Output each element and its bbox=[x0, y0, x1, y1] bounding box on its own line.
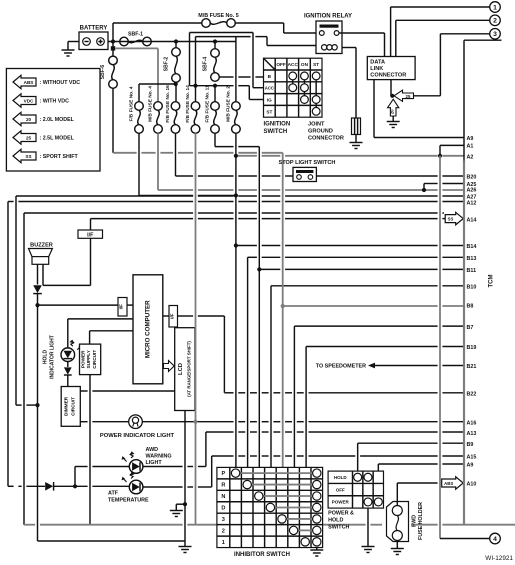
svg-text:INHIBITOR SWITCH: INHIBITOR SWITCH bbox=[234, 552, 290, 558]
wire relay coil to joint ground connector bbox=[342, 48, 356, 119]
fuse SBF-6 bbox=[100, 56, 117, 88]
wire A-net down to connector 4 bbox=[440, 156, 490, 539]
svg-text:ACC: ACC bbox=[288, 62, 299, 67]
svg-text:B13: B13 bbox=[467, 256, 477, 262]
fuse SBF-2 bbox=[164, 42, 181, 83]
svg-text:POWER INDICATOR LIGHT: POWER INDICATOR LIGHT bbox=[100, 433, 175, 439]
node dimmer feed bbox=[35, 403, 39, 407]
node No.4-No.2 junction bbox=[234, 193, 238, 197]
svg-text:: SPORT SHIFT: : SPORT SHIFT bbox=[40, 154, 79, 160]
LCD box bbox=[175, 328, 195, 411]
wire LCD ground rail bbox=[184, 411, 186, 547]
svg-text:ATF: ATF bbox=[108, 491, 119, 497]
wire 25-tag to connector 3 bbox=[414, 34, 490, 96]
svg-text:INDICATOR LIGHT: INDICATOR LIGHT bbox=[50, 335, 56, 379]
wire DLC to connector 2 bbox=[396, 20, 490, 56]
wire rail V1 down bbox=[235, 133, 237, 469]
svg-text:A9: A9 bbox=[467, 136, 474, 142]
wire DLC to diagnosis node bbox=[391, 80, 392, 96]
wire SBF-4 to B terminal bbox=[219, 76, 263, 78]
wire SBF-6 to rail V5 bbox=[113, 152, 283, 154]
diode D3 bbox=[45, 482, 53, 491]
svg-text:IGNITION: IGNITION bbox=[264, 122, 291, 128]
wire main left rail bbox=[37, 305, 39, 541]
svg-text:MICRO COMPUTER: MICRO COMPUTER bbox=[145, 300, 152, 358]
wire No.16 to stop light switch bbox=[176, 133, 294, 176]
svg-text:OFF: OFF bbox=[336, 487, 345, 492]
node LED branch bbox=[73, 484, 77, 488]
svg-text:A16: A16 bbox=[467, 420, 477, 426]
LED ATF temperature bbox=[108, 472, 149, 504]
wire dimmer to LCD bbox=[80, 390, 174, 392]
svg-text:LIGHT: LIGHT bbox=[146, 460, 163, 466]
svg-text:DIMMER: DIMMER bbox=[64, 396, 69, 416]
tag 25 (2.5L model) bbox=[394, 90, 414, 101]
svg-text:IG: IG bbox=[267, 98, 272, 103]
svg-text:A1: A1 bbox=[467, 144, 474, 150]
switch SW3 power and hold switch bbox=[328, 471, 383, 530]
node SBF-2/No.16 junction bbox=[174, 82, 178, 86]
svg-text:STOP LIGHT SWITCH: STOP LIGHT SWITCH bbox=[279, 160, 336, 166]
svg-text:A13: A13 bbox=[467, 431, 477, 437]
LED AWD warning light bbox=[122, 447, 172, 473]
svg-text:1: 1 bbox=[222, 540, 225, 546]
power supply circuit box bbox=[80, 344, 101, 375]
wire B19 bbox=[306, 347, 464, 469]
svg-text:ST: ST bbox=[313, 62, 319, 67]
svg-text:B7: B7 bbox=[467, 325, 474, 331]
svg-text:3: 3 bbox=[493, 31, 497, 38]
fuse M/B FUSE No. 4 bbox=[148, 86, 163, 134]
svg-text:FUSE HOLDER: FUSE HOLDER bbox=[418, 502, 424, 540]
lamp power indicator light bbox=[100, 415, 175, 439]
svg-text:B11: B11 bbox=[467, 268, 477, 274]
svg-text:4: 4 bbox=[493, 536, 497, 543]
svg-text:: 2.5L MODEL: : 2.5L MODEL bbox=[40, 136, 75, 142]
svg-text:OFF: OFF bbox=[276, 62, 286, 67]
svg-text:CIRCUIT: CIRCUIT bbox=[92, 350, 97, 369]
node I/F2 tap bbox=[35, 303, 39, 307]
wire DLC to connector 1 bbox=[391, 7, 490, 57]
wire fuse No.5 to ignition relay bbox=[235, 23, 319, 33]
svg-text:SWITCH: SWITCH bbox=[328, 525, 349, 531]
wire unit box left bbox=[24, 213, 444, 525]
wire B7 bbox=[294, 326, 464, 469]
wire I/F box riser bbox=[90, 219, 92, 230]
wire No.11 to rail V3 bbox=[215, 133, 259, 146]
svg-text:A2: A2 bbox=[467, 155, 474, 161]
svg-text:F/B FUSE No. 11: F/B FUSE No. 11 bbox=[205, 85, 211, 123]
wire A12-rail to node bbox=[16, 404, 38, 406]
LED hold indicator bbox=[61, 340, 82, 362]
wire DLC bottom to A9 bbox=[374, 80, 464, 138]
svg-text:BUZZER: BUZZER bbox=[30, 243, 53, 249]
svg-text:: WITHOUT VDC: : WITHOUT VDC bbox=[40, 80, 81, 86]
fuse SBF-4 bbox=[203, 42, 220, 82]
wire B10 bbox=[271, 286, 464, 469]
wire F/B No.4 down bbox=[139, 133, 236, 195]
svg-text:SS: SS bbox=[448, 216, 454, 221]
wire AWD LED to A13 bbox=[143, 432, 464, 467]
fuse F/B FUSE No. 4 bbox=[129, 86, 144, 133]
svg-text:ABS: ABS bbox=[444, 481, 453, 486]
svg-text:CONNECTOR: CONNECTOR bbox=[370, 73, 406, 79]
svg-text:B10: B10 bbox=[467, 285, 477, 291]
svg-text:P: P bbox=[221, 471, 225, 477]
wire B11 bbox=[259, 268, 464, 270]
wire M/B No.2 to A2 bbox=[236, 155, 464, 157]
switch SW2 inhibitor switch bbox=[217, 467, 323, 558]
node illumination tap bbox=[193, 420, 197, 424]
wire hold LED feed bbox=[68, 319, 133, 348]
svg-text:CIRCUIT: CIRCUIT bbox=[71, 397, 76, 416]
fuse F/B FUSE No. 14 bbox=[185, 85, 200, 133]
svg-text:R: R bbox=[221, 483, 225, 489]
arrow MC to LCD bbox=[164, 361, 175, 372]
wire IG to relay coil bbox=[196, 37, 317, 86]
wire B22 from LCD bbox=[178, 316, 465, 393]
I/F box 1 bbox=[78, 230, 103, 239]
node SBF-2 tap bbox=[174, 39, 178, 43]
wire I/F2 to micro computer bbox=[127, 304, 133, 306]
svg-text:D: D bbox=[221, 505, 225, 511]
tag SS (sport shift A14) bbox=[445, 212, 463, 225]
wire IG feed line bbox=[190, 86, 264, 100]
wire No.14 stub bbox=[195, 86, 197, 102]
svg-text:A15: A15 bbox=[467, 455, 477, 461]
wire rail V5 down bbox=[282, 153, 284, 469]
svg-text:SBF-1: SBF-1 bbox=[128, 32, 143, 38]
svg-text:WI-12921: WI-12921 bbox=[485, 555, 513, 562]
node A25 branch bbox=[422, 184, 464, 193]
svg-text:LCD: LCD bbox=[178, 363, 184, 375]
svg-text:B22: B22 bbox=[467, 392, 477, 398]
wire main bus from battery bbox=[108, 41, 236, 43]
svg-text:1: 1 bbox=[493, 4, 497, 11]
svg-text:F/B FUSE No. 16: F/B FUSE No. 16 bbox=[165, 85, 171, 123]
dimmer circuit box bbox=[61, 387, 80, 427]
svg-text:(AT RANGE/SPORT SHIFT): (AT RANGE/SPORT SHIFT) bbox=[186, 341, 191, 397]
buzzer BZ1 bbox=[29, 243, 53, 265]
wire B14 bbox=[236, 245, 464, 247]
svg-text:ST: ST bbox=[266, 109, 272, 114]
label TCM bbox=[489, 275, 495, 288]
svg-text:WARNING: WARNING bbox=[146, 454, 172, 460]
svg-text:ON: ON bbox=[301, 62, 309, 67]
wire to M/B fuse No.5 bbox=[113, 23, 202, 42]
wire No.11 stub bbox=[214, 86, 216, 102]
wire left rail to ground bbox=[38, 540, 186, 542]
switch stop light switch bbox=[279, 160, 336, 182]
ground (meter 1) bbox=[170, 504, 185, 516]
wire ACC feed bbox=[190, 33, 264, 88]
svg-text:I/F: I/F bbox=[119, 304, 124, 310]
svg-text:B21: B21 bbox=[467, 364, 477, 370]
diode D2 bbox=[64, 367, 72, 375]
wire LED to diode bbox=[67, 362, 69, 368]
svg-text:TEMPERATURE: TEMPERATURE bbox=[108, 498, 149, 504]
svg-text:A9: A9 bbox=[467, 463, 474, 469]
FWD fuse holder F1 bbox=[387, 502, 425, 542]
wire B21 to speedometer bbox=[316, 363, 464, 370]
fuse M/B FUSE No. 5 bbox=[198, 13, 238, 27]
svg-text:A14: A14 bbox=[467, 218, 477, 224]
wire ATF to A15 bbox=[143, 456, 464, 487]
wire buzzer to I/F bbox=[43, 238, 91, 285]
svg-text:B14: B14 bbox=[467, 244, 477, 250]
I/F box 3 bbox=[163, 306, 178, 328]
wire FWD fuse to ABS tag bbox=[397, 483, 442, 506]
battery B1 bbox=[79, 26, 108, 50]
node B8 junction bbox=[281, 304, 285, 308]
wire diode to dimmer bbox=[67, 375, 69, 386]
svg-text:HOLD: HOLD bbox=[43, 350, 49, 365]
svg-text:A26: A26 bbox=[467, 188, 477, 194]
svg-text:SBF-4: SBF-4 bbox=[203, 57, 209, 72]
wire battery to M/B fuse No.4 bbox=[115, 48, 158, 101]
svg-text:M/B FUSE No. 2: M/B FUSE No. 2 bbox=[225, 86, 231, 122]
fuse F/B FUSE No. 11 bbox=[205, 85, 220, 133]
svg-text:B20: B20 bbox=[467, 175, 477, 181]
label hold indicator light bbox=[43, 335, 56, 379]
wire B9 to P&H switch bbox=[358, 443, 464, 471]
fuse SBF-1 bbox=[120, 32, 152, 46]
wire SBF-6 down bbox=[112, 88, 114, 153]
wire lamp to A16 bbox=[142, 421, 464, 423]
svg-text:LINK: LINK bbox=[370, 66, 383, 72]
wire diode feed LEDs bbox=[8, 485, 45, 487]
labels TCM pins bbox=[467, 136, 477, 487]
svg-text:DATA: DATA bbox=[370, 60, 385, 66]
svg-text:IGNITION RELAY: IGNITION RELAY bbox=[304, 14, 352, 20]
wire stop light switch to B20 bbox=[316, 175, 464, 177]
tag ABS (A10) bbox=[442, 477, 464, 490]
svg-text:B9: B9 bbox=[467, 442, 474, 448]
svg-text:A12: A12 bbox=[467, 201, 477, 207]
wire B8 bbox=[283, 305, 464, 307]
wire illumination rail bbox=[195, 133, 197, 524]
connector 1 bbox=[490, 2, 501, 13]
svg-text:AWD: AWD bbox=[146, 447, 159, 453]
wire buzzer left leg bbox=[37, 264, 39, 284]
micro computer U2 bbox=[133, 275, 163, 384]
node ground tap bbox=[183, 502, 187, 506]
node SBF-4 tap bbox=[213, 39, 217, 43]
svg-text:25: 25 bbox=[406, 94, 411, 99]
svg-text:2: 2 bbox=[493, 18, 497, 25]
svg-text:: 2.0L MODEL: : 2.0L MODEL bbox=[40, 117, 75, 123]
node battery junction bbox=[111, 39, 115, 43]
wire bottom gray bus bbox=[24, 524, 515, 526]
data link connector J2 bbox=[367, 57, 415, 80]
svg-text:ACC: ACC bbox=[265, 86, 274, 91]
svg-text:: WITH VDC: : WITH VDC bbox=[40, 99, 70, 105]
svg-text:HOLD: HOLD bbox=[334, 475, 347, 480]
svg-text:BATTERY: BATTERY bbox=[80, 26, 108, 32]
label WI-12921 bbox=[485, 555, 513, 562]
node B11 junction bbox=[257, 267, 261, 271]
joint ground connector J1 bbox=[308, 118, 361, 142]
connector 2 bbox=[490, 15, 501, 26]
wire dimmer to lamp bbox=[80, 421, 128, 423]
wire A5 to P&H switch bbox=[378, 464, 464, 471]
svg-text:FWD: FWD bbox=[412, 515, 418, 527]
ground (battery) bbox=[62, 42, 75, 57]
wire I/F to A14 bbox=[91, 218, 447, 220]
wire B13 bbox=[248, 257, 464, 469]
svg-text:HOLD: HOLD bbox=[328, 518, 343, 524]
relay coil / ignition relay U1 bbox=[304, 14, 352, 54]
svg-text:GROUND: GROUND bbox=[308, 129, 333, 135]
svg-text:POWER &: POWER & bbox=[328, 511, 354, 517]
svg-text:I/F: I/F bbox=[170, 313, 175, 319]
ground (diagnosis) bbox=[387, 116, 400, 128]
wire PSC down bbox=[89, 375, 91, 525]
ground (joint ground connector) bbox=[350, 135, 363, 149]
diode D1 bbox=[33, 285, 42, 293]
wire M/B No.4 to A26 bbox=[158, 133, 464, 190]
svg-text:20: 20 bbox=[389, 109, 394, 114]
wire M/B fuse No.2 feed bbox=[235, 37, 237, 102]
wire A27 line bbox=[16, 196, 464, 405]
switch SW1 ignition switch bbox=[264, 58, 323, 135]
ground (inhibitor switch) bbox=[310, 548, 323, 556]
node IG-No.14 junction bbox=[193, 84, 197, 88]
svg-text:SS: SS bbox=[25, 154, 31, 159]
svg-text:SBF-2: SBF-2 bbox=[164, 57, 170, 72]
wire PSC to micro computer bbox=[90, 331, 133, 344]
wire branch to AWD LED bbox=[75, 467, 129, 487]
svg-text:F/B FUSE No. 14: F/B FUSE No. 14 bbox=[185, 85, 191, 123]
wire diode to ATF LED bbox=[54, 485, 129, 487]
svg-text:B8: B8 bbox=[467, 304, 474, 310]
fuse F/B FUSE No. 16 bbox=[165, 85, 180, 133]
svg-text:SWITCH: SWITCH bbox=[264, 129, 288, 135]
TCM bus bbox=[464, 40, 502, 524]
ground (P&H switch) bbox=[361, 508, 374, 552]
svg-text:25: 25 bbox=[26, 135, 32, 140]
node IG-No.11 junction bbox=[213, 84, 217, 88]
svg-text:CONNECTOR: CONNECTOR bbox=[308, 136, 344, 142]
svg-text:ABS: ABS bbox=[24, 80, 34, 85]
ground (meter 2) bbox=[179, 547, 192, 553]
svg-text:N: N bbox=[221, 494, 225, 500]
I/F box 2 bbox=[118, 298, 127, 317]
fuse M/B FUSE No. 2 bbox=[225, 86, 240, 134]
svg-text:20: 20 bbox=[26, 117, 32, 122]
wire node to I/F2 bbox=[38, 304, 119, 306]
connector 3 bbox=[490, 29, 501, 40]
svg-text:F/B FUSE No. 4: F/B FUSE No. 4 bbox=[129, 86, 135, 121]
wire A1 bbox=[440, 145, 464, 155]
svg-text:POWER: POWER bbox=[81, 350, 86, 368]
tag 20 (2.0L model) bbox=[388, 99, 399, 116]
svg-text:TO SPEEDOMETER: TO SPEEDOMETER bbox=[316, 364, 366, 370]
wire rail V3 down bbox=[258, 147, 260, 469]
svg-text:I/F: I/F bbox=[87, 233, 94, 239]
node battery sub junction bbox=[111, 42, 115, 57]
svg-text:M/B FUSE No. 4: M/B FUSE No. 4 bbox=[148, 86, 154, 122]
connector 4 bbox=[490, 533, 501, 544]
ground (FWD fuse) bbox=[391, 541, 404, 555]
wire SBF-2 output bbox=[139, 82, 176, 101]
svg-text:VDC: VDC bbox=[24, 98, 34, 103]
wire relay output to DLC bbox=[339, 33, 385, 57]
svg-text:SUPPLY: SUPPLY bbox=[86, 349, 91, 368]
svg-text:3: 3 bbox=[222, 517, 225, 523]
svg-text:A10: A10 bbox=[467, 482, 477, 488]
node diagnosis junction bbox=[390, 94, 394, 98]
svg-text:B19: B19 bbox=[467, 345, 477, 351]
svg-text:2: 2 bbox=[222, 528, 225, 534]
svg-text:SBF-6: SBF-6 bbox=[100, 65, 106, 80]
wire battery negative bbox=[68, 41, 79, 43]
svg-text:POWER: POWER bbox=[332, 500, 350, 505]
node A1/A2 junction bbox=[438, 154, 442, 158]
svg-text:M/B FUSE No. 5: M/B FUSE No. 5 bbox=[198, 13, 238, 19]
svg-text:JOINT: JOINT bbox=[308, 122, 325, 128]
legend box bbox=[6, 69, 100, 172]
svg-text:TCM: TCM bbox=[489, 275, 495, 288]
node A2 branch bbox=[234, 154, 238, 158]
node B14 junction bbox=[234, 243, 238, 247]
wire A12 line bbox=[8, 202, 464, 487]
wire diode to node bbox=[37, 294, 39, 305]
